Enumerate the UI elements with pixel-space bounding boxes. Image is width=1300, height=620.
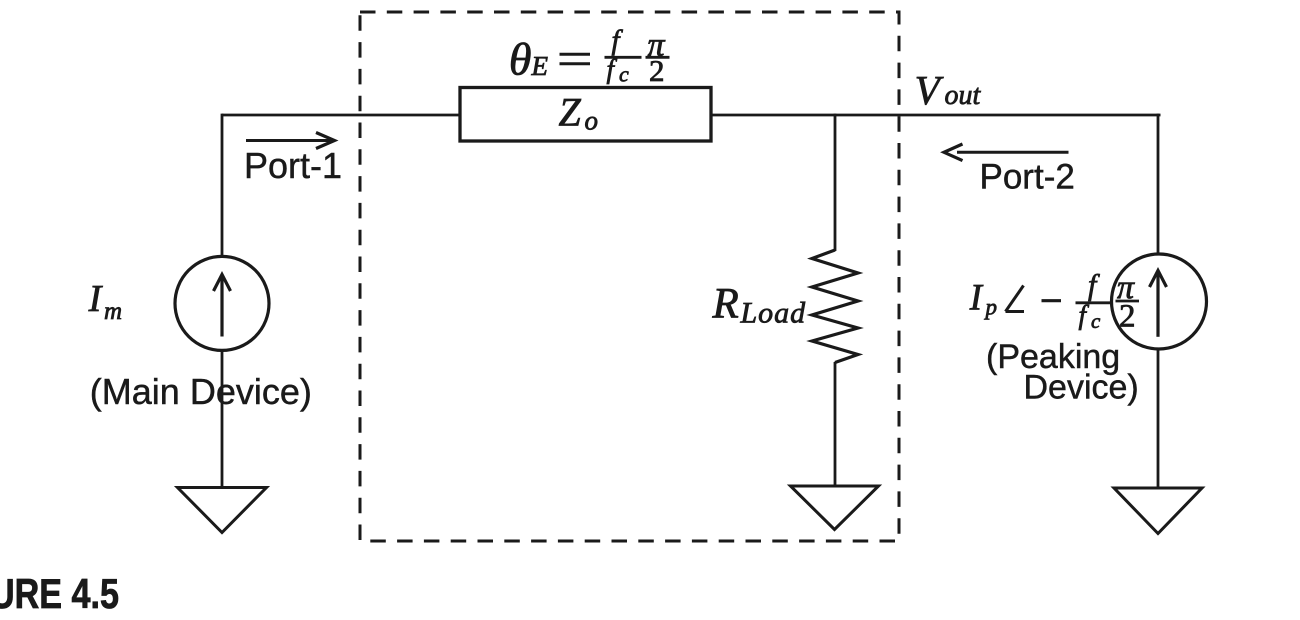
- svg-text:R: R: [712, 281, 739, 328]
- ground (main device): [178, 488, 267, 533]
- svg-text:f: f: [1079, 300, 1090, 330]
- svg-text:URE 4.5: URE 4.5: [0, 570, 119, 617]
- svg-text:θ: θ: [509, 34, 532, 85]
- current source I_m circle: [175, 256, 269, 350]
- ground (load): [791, 486, 879, 530]
- wire: left vertical from bus to main source: [221, 114, 224, 257]
- svg-text:m: m: [104, 298, 122, 325]
- resistor R_Load zigzag: [812, 250, 858, 363]
- svg-text:I: I: [88, 278, 104, 320]
- wire: junction vertical down to R_Load: [834, 114, 837, 251]
- dashed combiner enclosure box: [360, 12, 899, 541]
- svg-text:I: I: [969, 277, 984, 318]
- arrow inside peaking source: [1156, 273, 1159, 337]
- wire: main horizontal bus: [222, 114, 1161, 117]
- wire: main source to ground: [221, 350, 224, 488]
- transmission line Z_o box: [460, 88, 711, 142]
- svg-text:E: E: [531, 51, 549, 81]
- wire: peaking source to ground: [1157, 349, 1160, 490]
- svg-text:2: 2: [1119, 299, 1136, 335]
- svg-text:c: c: [619, 62, 629, 87]
- label I_p angle -(f/f_c)(pi/2): [969, 269, 1139, 335]
- wire: resistor to ground: [834, 362, 837, 487]
- svg-text:p: p: [984, 295, 998, 320]
- svg-text:Port-1: Port-1: [244, 145, 342, 186]
- svg-text:Load: Load: [740, 296, 807, 329]
- svg-text:2: 2: [649, 53, 665, 88]
- svg-text:(Main Device): (Main Device): [90, 371, 312, 412]
- wire: right vertical from bus to peaking source: [1157, 114, 1160, 255]
- svg-text:V: V: [915, 67, 944, 113]
- ground (peaking device): [1114, 488, 1202, 534]
- Port-2 arrow: [957, 151, 1069, 154]
- Port-1 arrow: [246, 139, 332, 142]
- svg-text:c: c: [1091, 309, 1101, 333]
- arrow inside main source: [220, 277, 223, 337]
- svg-text:out: out: [945, 80, 982, 111]
- svg-text:Device): Device): [1024, 369, 1139, 407]
- svg-text:o: o: [585, 106, 599, 136]
- svg-text:Port-2: Port-2: [980, 158, 1075, 197]
- svg-text:f: f: [1088, 269, 1100, 302]
- svg-text:Z: Z: [559, 89, 582, 134]
- formula theta_E = (f/f_c)(pi/2): [509, 25, 670, 88]
- svg-text:f: f: [612, 25, 624, 57]
- current source I_p circle (peaking): [1112, 254, 1207, 349]
